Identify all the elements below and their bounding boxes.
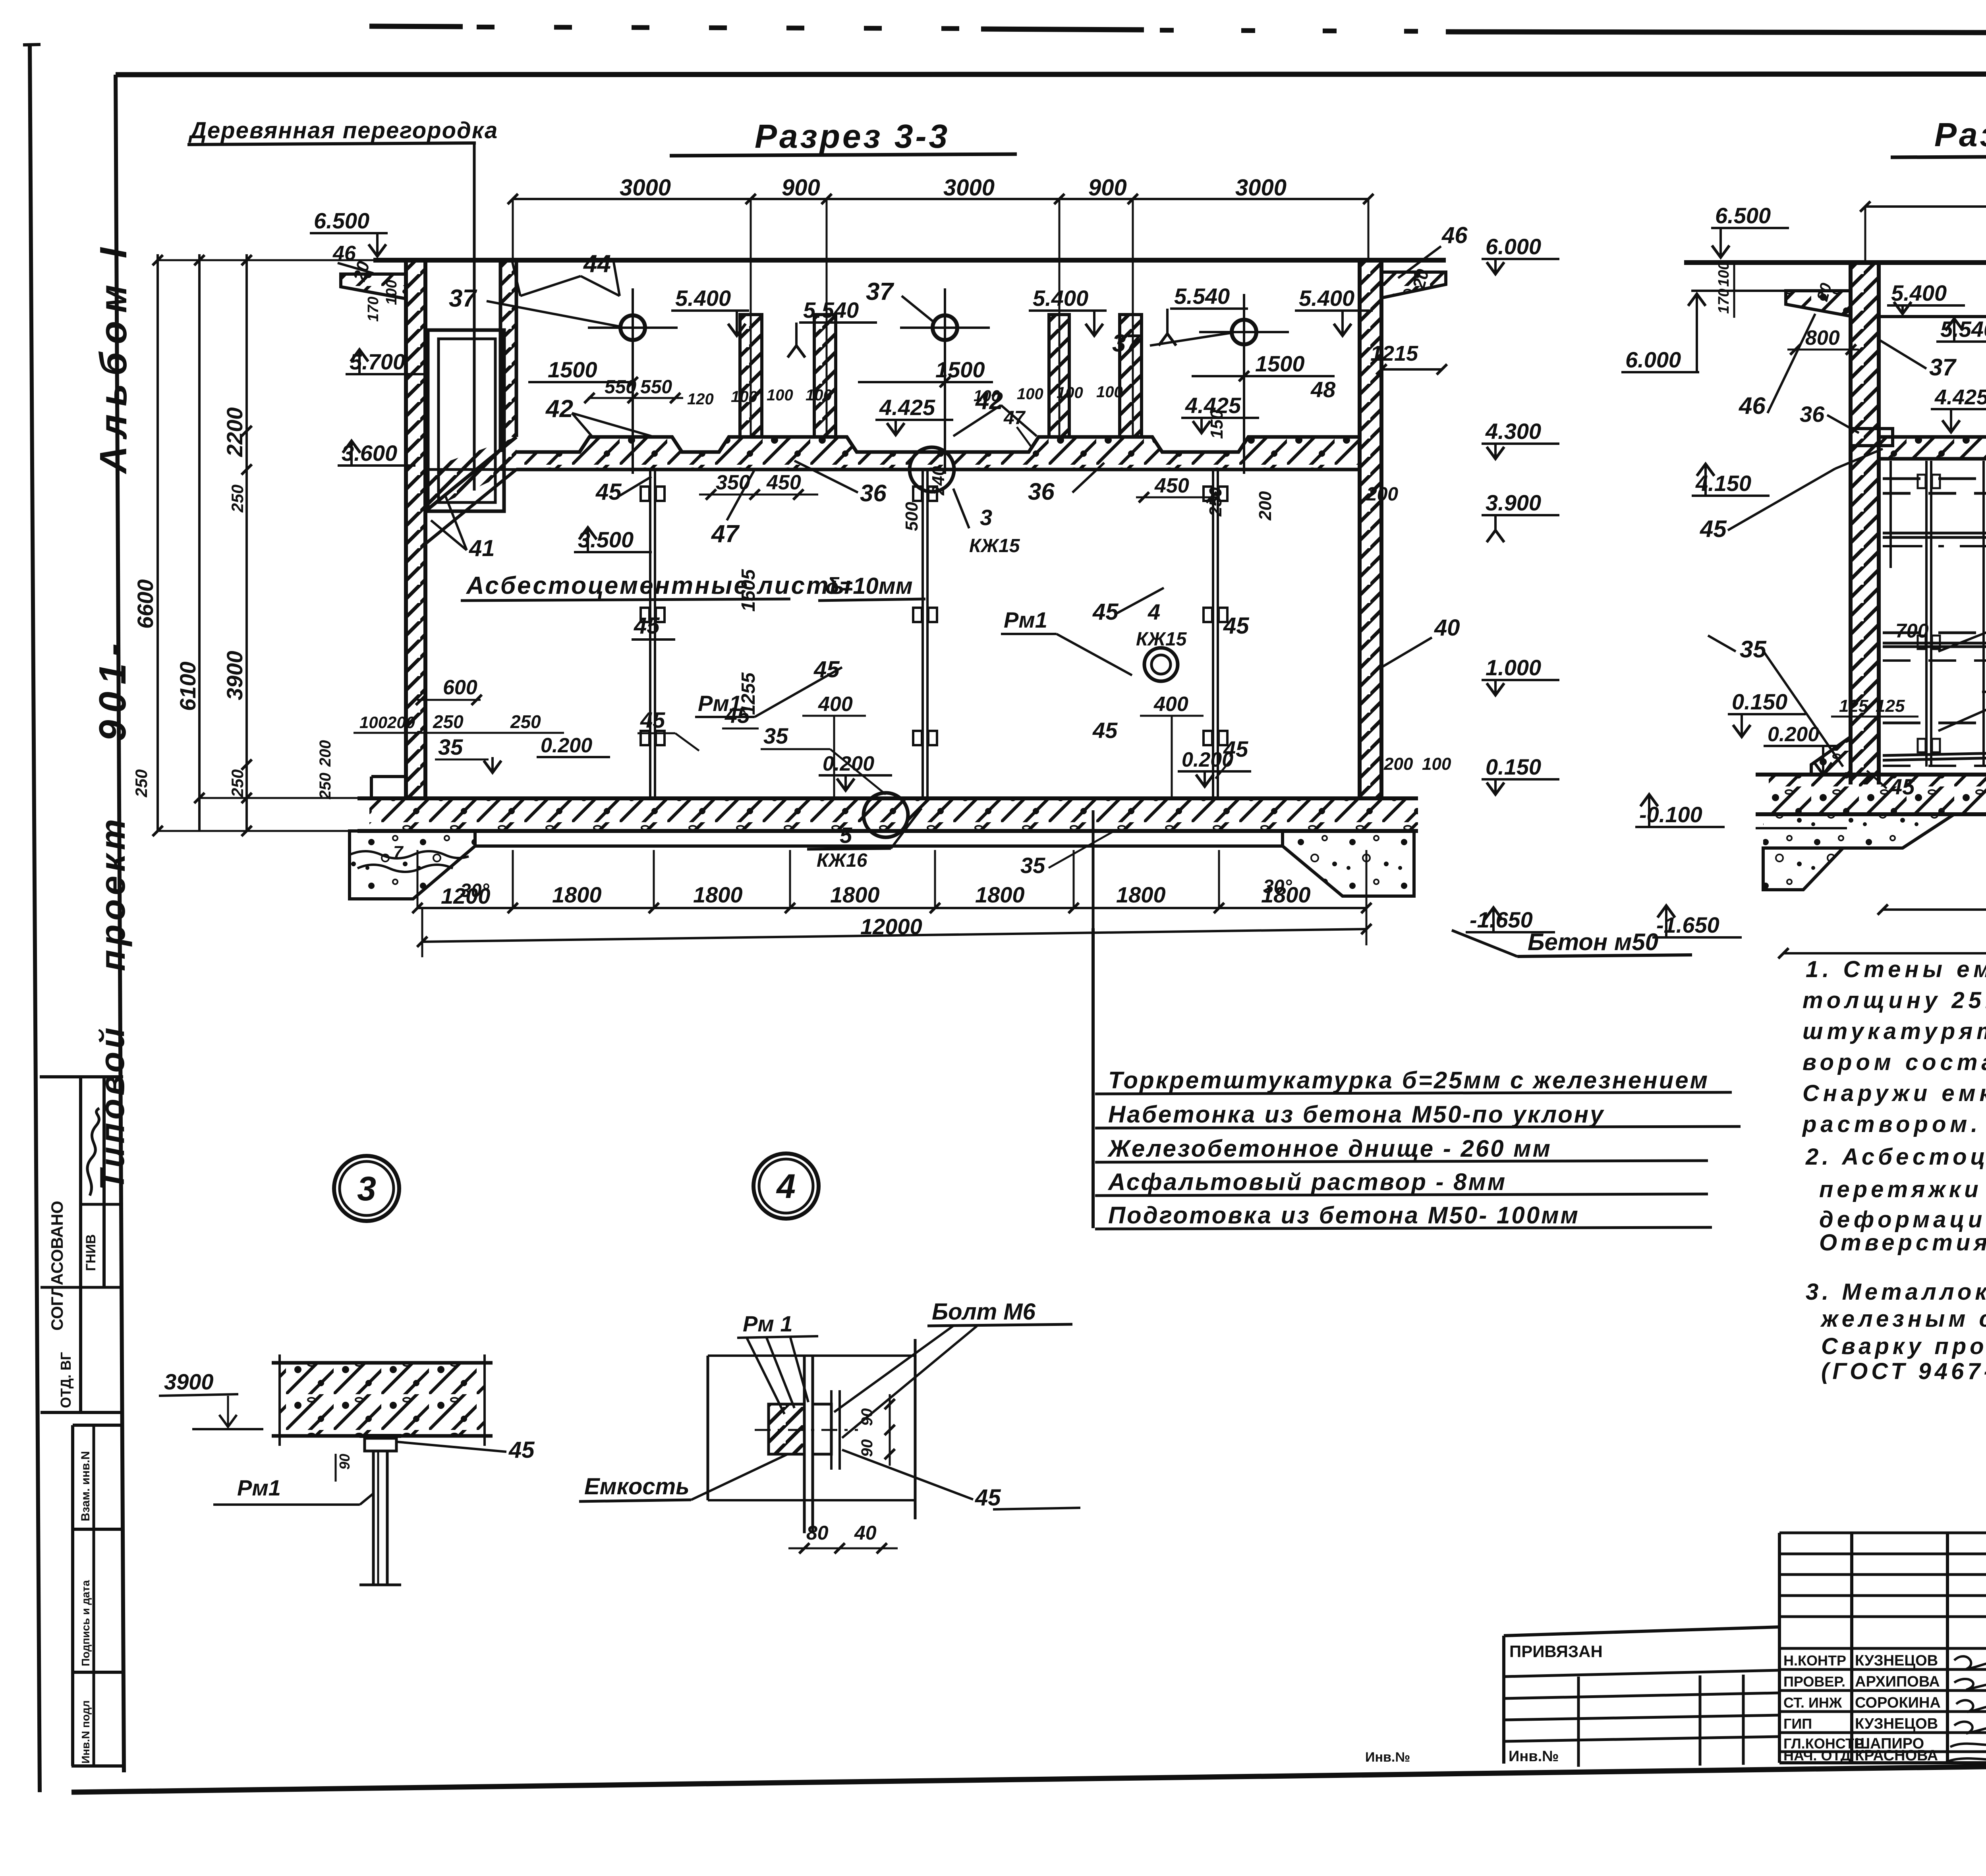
svg-text:42: 42 <box>975 387 1003 415</box>
svg-text:550: 550 <box>640 377 672 398</box>
svg-text:100: 100 <box>359 713 387 732</box>
svg-text:35: 35 <box>1020 853 1045 878</box>
svg-text:30°: 30° <box>460 880 489 901</box>
svg-text:Емкость: Емкость <box>584 1474 690 1499</box>
svg-text:железным суриком на олифе „: железным суриком на олифе „ оксоль" (ГОС… <box>1820 1306 1986 1332</box>
leader vertical to layer list <box>1092 810 1095 928</box>
3-3 top-left ledge <box>341 274 406 299</box>
4-4 mid slab <box>1879 437 1986 459</box>
svg-text:400: 400 <box>818 693 853 716</box>
detail 3 hanging rail <box>372 1451 375 1585</box>
svg-text:150: 150 <box>1207 410 1227 439</box>
3-3 detail circle 3 <box>910 447 954 492</box>
3-3 bottom dimension chain 1200+1800x6 <box>417 907 1366 909</box>
svg-text:6600: 6600 <box>133 579 158 629</box>
svg-text:45: 45 <box>813 657 840 682</box>
detail 4 outer edges <box>707 1356 709 1500</box>
svg-text:КУЗНЕЦОВ: КУЗНЕЦОВ <box>1855 1652 1938 1669</box>
svg-text:5.400: 5.400 <box>1891 280 1947 305</box>
svg-text:0.200: 0.200 <box>1768 723 1819 746</box>
svg-text:4.150: 4.150 <box>1695 471 1751 496</box>
sidebar lower table (Инв / Подпись / Взам) <box>73 1424 123 1427</box>
svg-text:250: 250 <box>228 769 247 798</box>
svg-text:(ГОСТ 9467-75) , катет h= 6: (ГОСТ 9467-75) , катет h= 6мм. <box>1821 1358 1986 1384</box>
3-3 underlayer line <box>475 844 1283 848</box>
privyazan mini table <box>1504 1627 1779 1636</box>
3-3 mid floor slab <box>516 437 1360 469</box>
svg-text:3000: 3000 <box>943 175 995 201</box>
svg-text:901-: 901- <box>91 636 134 741</box>
4-4 level line 5.400 <box>1876 315 1986 318</box>
4-4 tank top line <box>1684 260 1986 265</box>
3-3 right foundation mound <box>1283 831 1414 896</box>
svg-text:Взам. инв.N: Взам. инв.N <box>79 1451 92 1521</box>
3-3 bottom slab <box>369 798 1418 831</box>
svg-text:Разрез 4-4: Разрез 4-4 <box>1934 116 1986 153</box>
3-3 right wall <box>1360 260 1381 798</box>
svg-text:37: 37 <box>1112 330 1140 357</box>
svg-text:Снаружи емкость затираетс: Снаружи емкость затирается цементным <box>1802 1080 1986 1106</box>
svg-text:45: 45 <box>634 613 660 639</box>
4-4 left foundation mound <box>1763 814 1954 848</box>
svg-text:36: 36 <box>860 480 887 506</box>
svg-text:45: 45 <box>1700 516 1727 542</box>
svg-text:δ=10мм: δ=10мм <box>825 573 913 599</box>
svg-text:Асфальтовый раствор - 8м: Асфальтовый раствор - 8мм <box>1107 1169 1507 1195</box>
3-3 left outer wall <box>406 260 425 798</box>
svg-text:1800: 1800 <box>975 882 1025 907</box>
svg-text:6.000: 6.000 <box>1486 234 1541 259</box>
svg-text:250: 250 <box>433 711 464 732</box>
svg-text:Рм 1: Рм 1 <box>743 1311 792 1336</box>
svg-text:42: 42 <box>545 395 573 423</box>
svg-text:штукатурятся в ручную, цеме: штукатурятся в ручную, цементно-песчаным… <box>1802 1018 1986 1044</box>
sidebar approval table (СОГЛАСОВАНО) <box>40 1075 123 1078</box>
svg-text:вором состава 1:2. с послед: вором состава 1:2. с последующим железне… <box>1802 1049 1986 1075</box>
svg-text:45: 45 <box>724 703 750 728</box>
svg-text:Рм1: Рм1 <box>1004 607 1047 632</box>
svg-text:НАЧ. ОТД: НАЧ. ОТД <box>1783 1747 1851 1764</box>
svg-text:Инв.№: Инв.№ <box>1509 1748 1559 1765</box>
svg-text:125: 125 <box>1876 696 1905 716</box>
3-3 overall dimension 12000 <box>422 929 1366 942</box>
svg-text:350: 350 <box>716 471 750 494</box>
svg-text:6.500: 6.500 <box>1715 203 1771 228</box>
svg-text:2. Асбестоцементные листы: 2. Асбестоцементные листы крепить без <box>1805 1144 1986 1170</box>
svg-text:100: 100 <box>1017 385 1043 403</box>
svg-text:толщину 25мм в 2 намета; а: толщину 25мм в 2 намета; а в стесненных … <box>1802 987 1986 1013</box>
svg-text:120: 120 <box>687 390 714 408</box>
frame bottom line <box>71 1759 1986 1792</box>
3-3 mound break wavy lines <box>350 851 469 858</box>
detail 3 circle marker <box>334 1156 399 1221</box>
svg-text:7: 7 <box>393 842 404 862</box>
detail 4 bolt centerline <box>755 1429 858 1431</box>
svg-text:КЖ15: КЖ15 <box>1136 629 1187 650</box>
svg-text:700: 700 <box>1895 620 1929 642</box>
svg-text:3000: 3000 <box>620 175 671 201</box>
svg-text:46: 46 <box>332 242 356 265</box>
svg-text:30°: 30° <box>1263 876 1292 897</box>
svg-text:600: 600 <box>443 676 477 699</box>
svg-text:550: 550 <box>605 377 636 398</box>
svg-text:Подпись и дата: Подпись и дата <box>79 1580 92 1666</box>
svg-text:3: 3 <box>980 505 992 530</box>
svg-text:40: 40 <box>854 1522 877 1544</box>
3-3 asbestos sheet partitions (3) <box>649 469 651 798</box>
svg-text:100: 100 <box>731 388 757 406</box>
detail 4 bolt block <box>769 1404 804 1454</box>
svg-text:900: 900 <box>1088 175 1127 201</box>
svg-text:4: 4 <box>776 1167 796 1206</box>
title block signature table <box>1779 1532 1986 1534</box>
svg-text:12000: 12000 <box>860 914 922 939</box>
svg-text:3900: 3900 <box>222 651 247 700</box>
3-3 left foundation mound <box>350 831 475 899</box>
svg-text:35: 35 <box>438 734 463 759</box>
3-3 detail circle 4 <box>1144 648 1178 681</box>
3-3 detail circle 5 <box>864 793 908 837</box>
3-3 vent pipe 3 with circle 37 <box>1243 294 1245 474</box>
svg-text:45: 45 <box>640 707 665 732</box>
svg-text:100: 100 <box>1096 383 1123 401</box>
svg-text:100: 100 <box>1057 384 1083 402</box>
svg-text:800: 800 <box>1805 327 1840 350</box>
svg-text:Типовой: Типовой <box>93 1024 131 1190</box>
svg-text:КРАСНОВА: КРАСНОВА <box>1855 1747 1938 1764</box>
svg-text:44: 44 <box>583 250 611 278</box>
svg-text:170: 170 <box>365 297 382 322</box>
svg-text:48: 48 <box>1310 377 1336 402</box>
svg-text:ПРИВЯЗАН: ПРИВЯЗАН <box>1509 1642 1603 1661</box>
svg-text:3900: 3900 <box>164 1369 214 1394</box>
svg-text:200: 200 <box>1366 484 1398 505</box>
svg-text:170: 170 <box>1716 289 1732 314</box>
svg-text:45: 45 <box>1092 599 1119 625</box>
svg-text:100: 100 <box>767 386 793 404</box>
svg-text:500: 500 <box>902 502 922 531</box>
detail 3 hanger plate <box>359 1434 401 1438</box>
svg-text:3.900: 3.900 <box>1486 490 1541 515</box>
svg-text:0.200: 0.200 <box>823 752 874 775</box>
3-3 top-right ledge <box>1381 272 1446 298</box>
svg-text:1. Стены емкости изнутри тор: 1. Стены емкости изнутри торкретируются … <box>1806 956 1986 982</box>
3-3 inner partition wall <box>500 260 516 437</box>
svg-text:90: 90 <box>858 1439 876 1457</box>
3-3 left vertical dimension lines 6600/6100/3900/2200 <box>156 254 159 831</box>
svg-text:1500: 1500 <box>1255 351 1305 376</box>
svg-text:Н.КОНТР: Н.КОНТР <box>1783 1652 1846 1669</box>
svg-text:450: 450 <box>1154 474 1189 497</box>
svg-text:СОРОКИНА: СОРОКИНА <box>1855 1694 1941 1711</box>
detail 4 sheet lines <box>803 1356 806 1533</box>
svg-text:37: 37 <box>1929 354 1957 381</box>
frame top line <box>116 74 1986 75</box>
svg-text:Альбом I: Альбом I <box>92 240 135 474</box>
leader from wood partition label <box>473 144 476 491</box>
svg-text:100: 100 <box>1422 754 1451 774</box>
svg-text:Сварку производить электрода: Сварку производить электродами типа Э-42 <box>1821 1333 1986 1359</box>
svg-text:200: 200 <box>1383 754 1413 774</box>
svg-text:3: 3 <box>357 1170 376 1208</box>
3-3 stub wall posts pair 2 <box>1049 315 1069 437</box>
svg-text:90: 90 <box>858 1408 876 1426</box>
svg-text:90: 90 <box>336 1454 353 1470</box>
svg-text:125: 125 <box>1839 696 1868 716</box>
outer left sheet edge line <box>30 44 40 1792</box>
svg-text:6100: 6100 <box>175 661 200 711</box>
svg-text:46: 46 <box>1739 392 1766 419</box>
signature squiggle sidebar <box>87 1108 99 1196</box>
svg-text:КЖ15: КЖ15 <box>969 535 1020 556</box>
svg-text:Подготовка из бетона М50- 100м: Подготовка из бетона М50- 100мм <box>1108 1202 1580 1229</box>
svg-text:ОТД. ВГ: ОТД. ВГ <box>58 1352 74 1408</box>
svg-text:Инв.N подл: Инв.N подл <box>79 1700 92 1764</box>
3-3 left wall footing step <box>371 775 406 778</box>
3-3 top dimension chain 3000/900/3000/900/3000 <box>513 198 1368 200</box>
svg-text:47: 47 <box>711 520 740 548</box>
svg-text:Деревянная перегородка: Деревянная перегородка <box>188 118 498 143</box>
svg-text:37: 37 <box>866 278 894 305</box>
svg-text:4.300: 4.300 <box>1485 419 1541 444</box>
layers spec list <box>1092 928 1095 1228</box>
svg-text:1800: 1800 <box>552 882 602 907</box>
svg-text:40: 40 <box>1434 615 1460 641</box>
svg-text:ГИП: ГИП <box>1783 1716 1812 1732</box>
3-3 vent pipe 2 with circle 37 <box>944 288 946 474</box>
svg-text:80: 80 <box>806 1522 829 1544</box>
svg-text:46: 46 <box>1441 222 1468 248</box>
svg-text:100: 100 <box>383 280 400 305</box>
svg-text:5.540: 5.540 <box>1174 284 1230 309</box>
svg-text:5.400: 5.400 <box>675 286 731 311</box>
svg-text:250: 250 <box>228 485 247 513</box>
svg-text:ГНИВ: ГНИВ <box>83 1234 99 1271</box>
svg-text:45: 45 <box>975 1485 1001 1511</box>
3-3 wooden door opening <box>428 330 504 511</box>
svg-text:2200: 2200 <box>222 407 247 457</box>
svg-text:6.000: 6.000 <box>1625 347 1681 372</box>
svg-text:СТ. ИНЖ: СТ. ИНЖ <box>1783 1694 1842 1711</box>
svg-text:6.500: 6.500 <box>314 208 369 233</box>
svg-text:45: 45 <box>1889 774 1915 799</box>
svg-text:КЖ16: КЖ16 <box>817 850 867 871</box>
svg-text:Инв.№: Инв.№ <box>1365 1750 1410 1765</box>
svg-text:250: 250 <box>132 769 151 798</box>
svg-text:Железобетонное днище - 260 мм: Железобетонное днище - 260 мм <box>1107 1135 1552 1162</box>
svg-text:1800: 1800 <box>693 882 743 907</box>
svg-text:41: 41 <box>469 535 495 561</box>
svg-text:37: 37 <box>449 285 477 312</box>
svg-text:Разрез 3-3: Разрез 3-3 <box>755 118 950 155</box>
3-3 stub wall posts pair 1 <box>740 315 762 437</box>
svg-text:0.150: 0.150 <box>1486 754 1541 779</box>
svg-text:АРХИПОВА: АРХИПОВА <box>1855 1673 1940 1690</box>
svg-text:250: 250 <box>317 773 334 800</box>
svg-text:КУЗНЕЦОВ: КУЗНЕЦОВ <box>1855 1716 1938 1732</box>
svg-text:1.000: 1.000 <box>1486 655 1541 680</box>
svg-text:Болт М6: Болт М6 <box>932 1299 1036 1325</box>
svg-text:Рм1: Рм1 <box>237 1475 281 1500</box>
svg-text:1800: 1800 <box>1116 882 1166 907</box>
svg-text:200: 200 <box>387 713 415 732</box>
3-3 vent pipe 1 with circle 37 <box>632 288 634 474</box>
svg-text:0.200: 0.200 <box>541 734 592 757</box>
svg-text:4.425: 4.425 <box>1934 385 1986 409</box>
svg-text:перетяжки болтов для обеспе: перетяжки болтов для обеспечения влажной <box>1819 1177 1986 1202</box>
svg-text:1215: 1215 <box>1370 342 1418 365</box>
svg-text:35: 35 <box>1740 636 1767 663</box>
sheet top broken border line <box>369 26 463 27</box>
svg-text:Набетонка из бетона М50-по ук: Набетонка из бетона М50-по уклону <box>1108 1101 1605 1128</box>
svg-text:200: 200 <box>1256 491 1275 521</box>
svg-text:5.540: 5.540 <box>803 298 859 323</box>
svg-text:5: 5 <box>840 823 852 848</box>
detail 3 slab <box>280 1363 485 1436</box>
svg-text:3. Металлоконструкции после: 3. Металлоконструкции после монтажа окра… <box>1806 1279 1986 1305</box>
4-4 left ledge <box>1786 291 1851 316</box>
4-4 clips on sheets <box>1918 475 1926 488</box>
svg-text:400: 400 <box>1153 693 1188 716</box>
svg-text:250: 250 <box>1206 487 1225 517</box>
svg-text:1500: 1500 <box>935 357 985 382</box>
svg-text:5.400: 5.400 <box>1299 286 1354 311</box>
svg-text:Бетон м50: Бетон м50 <box>1528 929 1658 955</box>
svg-text:45: 45 <box>1092 718 1118 743</box>
svg-text:45: 45 <box>1223 736 1248 761</box>
3-3 slab left haunch <box>425 437 516 511</box>
4-4 left lower footing block <box>1763 848 1843 890</box>
svg-text:Отверстия в листах 10мм.: Отверстия в листах 10мм. <box>1819 1230 1986 1256</box>
4-4 top dims 4100/900 <box>1865 205 1986 208</box>
svg-text:5.400: 5.400 <box>1033 286 1088 311</box>
signatures squiggles <box>1954 1656 1986 1674</box>
svg-text:100: 100 <box>1716 262 1732 287</box>
svg-text:250: 250 <box>510 711 541 732</box>
svg-text:0.150: 0.150 <box>1732 689 1787 714</box>
svg-text:200: 200 <box>317 740 334 767</box>
svg-text:ПРОВЕР.: ПРОВЕР. <box>1783 1673 1845 1690</box>
4-4 left wall <box>1851 263 1879 784</box>
4-4 interior horizontal frame lines <box>1883 477 1986 480</box>
4-4 bottom slab <box>1769 775 1986 814</box>
svg-text:Торкретштукатурка б=25мм с жел: Торкретштукатурка б=25мм с железнением <box>1108 1067 1709 1094</box>
svg-text:раствором.: раствором. <box>1802 1111 1981 1137</box>
svg-text:1800: 1800 <box>830 882 880 907</box>
svg-text:47: 47 <box>1003 408 1026 429</box>
svg-text:45: 45 <box>595 479 622 505</box>
4-4 wall base flares <box>1811 737 1851 775</box>
svg-text:45: 45 <box>508 1437 535 1463</box>
svg-text:4.425: 4.425 <box>879 395 935 420</box>
svg-text:3000: 3000 <box>1235 175 1287 201</box>
svg-text:35: 35 <box>763 723 788 748</box>
svg-text:деформации.: деформации. <box>1819 1207 1986 1233</box>
svg-text:45: 45 <box>1223 613 1249 639</box>
svg-text:450: 450 <box>766 471 801 494</box>
svg-text:240: 240 <box>929 466 948 496</box>
frame left line <box>116 75 124 1772</box>
svg-text:СОГЛАСОВАНО: СОГЛАСОВАНО <box>48 1201 66 1331</box>
svg-text:1500: 1500 <box>548 357 597 382</box>
svg-text:Асбестоцементные листы: Асбестоцементные листы <box>466 572 852 599</box>
svg-text:36: 36 <box>1028 478 1055 505</box>
3-3 tank top line <box>373 258 1446 263</box>
svg-text:4: 4 <box>1148 599 1160 624</box>
svg-text:100: 100 <box>806 386 832 404</box>
detail 4 circle marker <box>753 1153 819 1219</box>
svg-text:900: 900 <box>782 175 820 201</box>
4-4 interior vertical sheet lines <box>1925 461 1928 767</box>
svg-text:проект: проект <box>93 815 132 971</box>
svg-text:36: 36 <box>1800 402 1825 427</box>
